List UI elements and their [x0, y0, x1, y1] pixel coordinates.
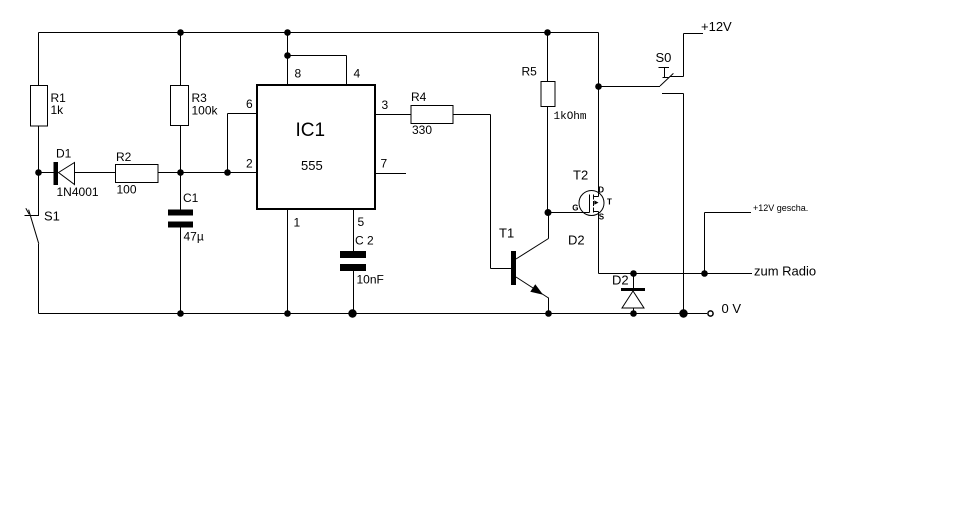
wire C1 bottom to ground rail — [180, 228, 182, 314]
junction node A (D1/R1/S1) — [35, 169, 42, 176]
wire D2 top lead — [633, 274, 635, 289]
wire left column top (top rail to R1) — [38, 33, 40, 86]
wire node D to S0 common — [599, 86, 661, 88]
svg-text:1: 1 — [294, 215, 301, 229]
junction node C1 / ground rail — [177, 310, 184, 317]
svg-text:10nF: 10nF — [357, 273, 384, 287]
label C2 — [355, 233, 384, 286]
junction node pin1 / ground rail — [284, 310, 291, 317]
svg-text:R2: R2 — [116, 150, 132, 164]
junction node S0 lower / ground rail — [679, 309, 687, 317]
wire C2 to ground rail — [353, 271, 355, 314]
svg-text:zum Radio: zum Radio — [754, 264, 816, 279]
switch S0 — [659, 68, 674, 87]
svg-text:100: 100 — [117, 183, 137, 197]
wire node B to IC pin 2 — [228, 172, 258, 174]
wire T1 emitter vertical to ground rail — [548, 298, 550, 314]
wire +12V gescha stub — [705, 212, 752, 214]
label R5 — [522, 65, 587, 123]
svg-text:+12V gescha.: +12V gescha. — [753, 203, 808, 213]
resistor R1 — [31, 86, 48, 127]
svg-text:330: 330 — [412, 123, 432, 137]
wire pin 4 drop — [346, 56, 348, 86]
transistor T1 — [511, 239, 549, 299]
svg-text:T2: T2 — [573, 168, 588, 183]
wire +12V stub — [684, 33, 704, 35]
wire T1 collector vertical — [548, 213, 550, 239]
svg-text:3: 3 — [382, 98, 389, 112]
junction node C R5/T1 collector/T2 gate — [545, 209, 552, 216]
wire pin 1 to ground rail — [287, 209, 289, 314]
wire zum Radio row — [599, 273, 753, 275]
junction node D2 / zum Radio row — [630, 270, 637, 277]
diode D1 — [54, 162, 75, 185]
wire R2 to node B — [158, 172, 228, 174]
resistor R4 — [411, 106, 453, 124]
junction node top rail / R5 — [544, 29, 551, 36]
wire R5 top — [547, 33, 549, 82]
capacitor C1 — [168, 210, 193, 228]
junction node R2/R3/C1 — [177, 169, 184, 176]
svg-text:G: G — [572, 204, 578, 213]
svg-text:100k: 100k — [192, 104, 219, 118]
wire pin 3 to R4 — [375, 114, 411, 116]
wire pin 7 stub — [375, 173, 406, 175]
svg-text:D: D — [598, 186, 604, 195]
svg-text:D2: D2 — [568, 233, 585, 248]
wire R5 bottom to node C — [547, 107, 549, 213]
svg-text:D2: D2 — [612, 273, 629, 288]
svg-text:7: 7 — [381, 156, 388, 170]
resistor R2 — [116, 165, 159, 183]
wire pin 6 stub — [228, 113, 258, 115]
wire R4 to corner — [453, 114, 491, 116]
svg-text:T1: T1 — [499, 226, 514, 241]
resistor R3 — [171, 86, 189, 126]
wire pin 8 to top rail — [287, 33, 289, 86]
svg-text:5: 5 — [358, 215, 365, 229]
svg-text:8: 8 — [295, 67, 302, 81]
junction node B pin2/pin6 branch — [224, 169, 231, 176]
wire T2 drain column from top rail — [598, 33, 600, 197]
wire D1 anode to R2 — [75, 172, 116, 174]
svg-text:R5: R5 — [522, 65, 538, 79]
svg-text:6: 6 — [246, 97, 253, 111]
wire R1 bottom to node A — [38, 126, 40, 173]
junction node top rail / pin 8 — [284, 29, 291, 36]
svg-text:S0: S0 — [656, 50, 672, 65]
wire top +12V rail — [39, 32, 599, 34]
wire S0 upper contact — [670, 76, 684, 78]
svg-text:1N4001: 1N4001 — [57, 185, 99, 199]
wire pin 8 to pin 4 link — [288, 55, 347, 57]
label R2 — [116, 150, 137, 196]
svg-text:47µ: 47µ — [184, 230, 204, 244]
wire R3 bottom to node B row — [180, 126, 182, 173]
label D1 — [56, 147, 99, 200]
svg-text:1k: 1k — [51, 103, 65, 117]
svg-text:T: T — [607, 198, 612, 207]
wire S1 bottom to ground rail — [38, 244, 40, 314]
svg-text:555: 555 — [301, 158, 323, 173]
capacitor C2 — [340, 251, 366, 271]
junction node D drain / S0 — [595, 83, 602, 90]
junction node D2 anode / ground rail — [630, 310, 637, 317]
wire node C to T2 gate — [548, 212, 590, 214]
junction node pin8-pin4 link — [284, 52, 291, 59]
svg-text:4: 4 — [354, 67, 361, 81]
label R4 — [411, 90, 432, 137]
svg-text:D1: D1 — [56, 147, 72, 161]
wire R4 corner down to T1 base row — [490, 115, 492, 269]
svg-text:+12V: +12V — [701, 19, 732, 34]
wire S0 lower contact down to ground rail — [683, 94, 685, 314]
wire bottom 0V rail — [39, 313, 708, 315]
junction node T1 emitter / ground rail — [545, 310, 552, 317]
svg-text:S: S — [599, 213, 605, 222]
junction node C2 / ground rail — [348, 309, 356, 317]
diode D2 — [621, 288, 645, 308]
wire T1 base lead — [491, 268, 512, 270]
transistor T2 MOSFET — [572, 186, 612, 222]
resistor R5 — [541, 82, 555, 107]
label C1 — [183, 191, 204, 244]
label R1 — [51, 91, 67, 117]
svg-text:1kOhm: 1kOhm — [554, 111, 587, 123]
op-amp IC1 555 box — [257, 85, 375, 209]
wire node A down to S1 — [38, 173, 40, 216]
svg-text:R4: R4 — [411, 90, 427, 104]
wire node A to D1 cathode — [39, 172, 54, 174]
junction node top rail / R3 — [177, 29, 184, 36]
wire node B up to pin 6 row — [227, 114, 229, 173]
label R3 — [192, 91, 219, 118]
svg-text:S1: S1 — [44, 208, 60, 223]
wire T2 source down — [598, 212, 600, 274]
junction node +12Vgescha / zum Radio row — [701, 270, 708, 277]
svg-text:2: 2 — [246, 156, 253, 170]
wire pin 5 to C2 — [353, 209, 355, 251]
wire +12V gescha riser — [704, 213, 706, 274]
wire S0 upper contact riser to +12V — [683, 34, 685, 77]
wire S0 lower contact — [662, 93, 684, 95]
node 0V terminal circle — [708, 311, 713, 316]
svg-text:C1: C1 — [183, 191, 199, 205]
wire node B row to C1 top — [180, 173, 182, 210]
wire D2 bottom lead — [633, 308, 635, 314]
svg-text:IC1: IC1 — [296, 120, 326, 141]
svg-text:0 V: 0 V — [722, 301, 742, 316]
wire R3 column top — [180, 33, 182, 86]
switch S1 — [25, 208, 40, 244]
svg-text:C 2: C 2 — [355, 233, 374, 247]
